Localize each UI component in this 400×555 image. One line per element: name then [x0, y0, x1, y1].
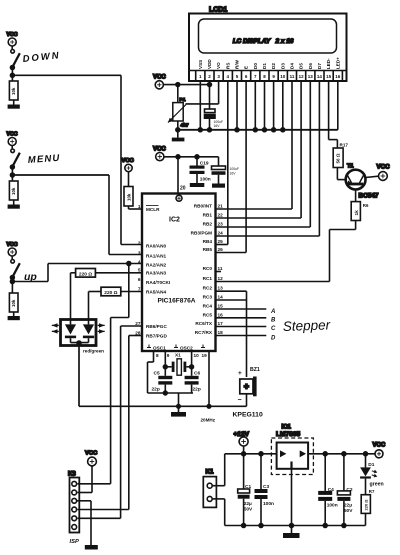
svg-text:T1: T1 — [347, 164, 354, 170]
wire: VCC rail to LCD VDD — [163, 84, 209, 86]
wire: LCD pin10 D3 grounded — [282, 81, 284, 130]
svg-text:red/green: red/green — [83, 349, 104, 354]
connector K3 ISP — [68, 472, 79, 546]
capacitor 100uF/16V on VDD — [205, 109, 224, 128]
svg-text:B: B — [271, 318, 276, 324]
svg-text:25: 25 — [218, 239, 224, 244]
node: C1 top / bottom — [242, 524, 246, 528]
node: VDD to VCC rail — [208, 83, 212, 87]
IC2 left pin numbers — [135, 204, 141, 336]
svg-text:D1: D1 — [368, 462, 374, 468]
wire: +12V drop to input rail — [243, 446, 245, 454]
wire: LCD pin5 R/W down to ground bus — [236, 81, 238, 130]
node: pin19 on rail — [207, 405, 211, 409]
svg-text:C19: C19 — [200, 161, 209, 167]
capacitor C1 22u/50V — [238, 454, 253, 526]
svg-text:16: 16 — [335, 74, 341, 79]
wire: RC6 stepper C — [216, 326, 267, 328]
wire: LCD pin16 down to ground bus end — [337, 81, 339, 130]
svg-text:RA1/AN1: RA1/AN1 — [146, 254, 166, 259]
svg-text:RC3: RC3 — [203, 295, 213, 300]
svg-text:26: 26 — [218, 247, 224, 252]
svg-text:C: C — [271, 326, 276, 332]
node: VSS on ground bus — [198, 128, 202, 132]
svg-text:RC6/TX: RC6/TX — [195, 321, 213, 326]
svg-text:10k: 10k — [11, 87, 16, 95]
svg-text:D2: D2 — [271, 63, 276, 69]
svg-text:D6: D6 — [308, 63, 313, 69]
ground (UP resistor) — [8, 312, 20, 320]
LCD module LCD1 — [189, 7, 347, 82]
wire: LED1 up to 220ohm — [71, 273, 76, 320]
svg-text:15: 15 — [218, 304, 224, 309]
wire: LED cathodes to ground rail — [79, 343, 247, 406]
wire: LCD pin8 D1 grounded — [264, 81, 266, 130]
wire: LCD pin15 down jog to R17 — [329, 81, 338, 148]
wire: VCC to K3 pin2 — [78, 466, 93, 493]
connector K1 — [203, 469, 216, 508]
resistor 220ohm (LED1) — [76, 269, 96, 278]
wire: RC3 stub joins buzzer net — [216, 299, 247, 301]
LED D1 green — [360, 454, 384, 488]
wire: LCD pin12 D5 down to RB1 — [216, 81, 302, 218]
resistor 220ohm (LED2) — [101, 287, 121, 296]
svg-text:RB3/PGM: RB3/PGM — [191, 231, 212, 236]
IC U2: PIC16F876A box — [142, 194, 216, 352]
svg-text:19: 19 — [202, 353, 208, 358]
capacitor C5 22p — [152, 371, 173, 394]
svg-text:D3: D3 — [280, 63, 285, 69]
voltage regulator IC1 LM7805 — [271, 425, 313, 475]
wire: IC2 pin8 VSS to ground — [148, 351, 194, 393]
svg-text:C6: C6 — [194, 371, 200, 377]
ground (main rail) — [171, 406, 186, 416]
svg-text:VCC: VCC — [7, 32, 18, 38]
node: cap minus on ground bus — [208, 128, 212, 132]
svg-text:10: 10 — [280, 74, 286, 79]
wire: LCD pin3 VO to pot wiper — [186, 81, 219, 104]
wire: OSC2 pin10 column — [191, 351, 193, 376]
svg-text:RA5/AN4: RA5/AN4 — [146, 290, 166, 295]
crystal X1 20MHz — [165, 359, 191, 375]
LCD pin function labels (vertical) — [198, 57, 341, 69]
wire: LCD pin7 D0 grounded — [254, 81, 256, 130]
LED module D red/green — [52, 320, 105, 354]
switch S2 MENU with VCC — [7, 132, 20, 182]
wire: RC2 to buzzer plus — [216, 291, 247, 377]
resistor R7 220ohm — [361, 479, 375, 526]
svg-text:22p: 22p — [193, 387, 201, 393]
svg-text:C5: C5 — [154, 371, 160, 377]
node: D1 tap on output rail — [364, 452, 368, 456]
svg-text:220 Ω: 220 Ω — [79, 272, 92, 278]
wire: RC7 stepper D — [216, 335, 267, 337]
wire: LCD pin14 D7 down to RB3 — [216, 81, 320, 236]
wire: UP switch jog to RA2 — [12, 264, 142, 282]
svg-text:RC2: RC2 — [203, 286, 213, 291]
svg-text:20MHz: 20MHz — [201, 418, 216, 423]
svg-text:BC547: BC547 — [359, 193, 379, 200]
node: UP junction — [10, 280, 14, 284]
ground (K3) — [85, 545, 98, 550]
wire: R17 to T1 base — [337, 168, 345, 180]
wire: T1 collector to VCC — [366, 176, 379, 177]
wire: oscillator gnd link down to rail — [178, 393, 180, 406]
node: +12V on rail — [242, 452, 246, 456]
svg-text:RC0: RC0 — [203, 266, 213, 271]
wire: RC4 stepper A — [216, 308, 267, 310]
svg-text:VCC: VCC — [373, 443, 386, 449]
svg-text:RB4: RB4 — [203, 239, 213, 244]
node: P1 bottom on ground bus — [176, 128, 180, 132]
svg-text:220 Ω: 220 Ω — [364, 499, 369, 511]
svg-text:D7: D7 — [317, 63, 322, 69]
svg-text:10k: 10k — [127, 193, 132, 201]
svg-text:8: 8 — [156, 353, 159, 358]
wire: RC5 stepper B — [216, 317, 267, 319]
LCD pin number row (pins 1-16) — [189, 71, 347, 82]
resistor 10k (DOWN pull-down) — [9, 81, 18, 100]
resistor 10k (UP pull-down) — [9, 293, 18, 312]
potentiometer P1 4k7 — [168, 97, 189, 129]
svg-text:22: 22 — [218, 213, 224, 218]
transistor T1 BC547 — [346, 164, 379, 200]
svg-text:D0: D0 — [253, 63, 258, 69]
wire: output rail to VCC — [308, 453, 374, 455]
svg-text:VO: VO — [216, 62, 221, 69]
wire: RC0 stub — [216, 271, 222, 273]
ground (below P1) — [172, 121, 185, 141]
svg-text:RB7/PGD: RB7/PGD — [146, 334, 167, 339]
wire: 220ohm to RA5 — [121, 291, 142, 293]
svg-text:RA4/T0CKI: RA4/T0CKI — [146, 280, 170, 285]
svg-text:LED+: LED+ — [335, 57, 340, 69]
svg-text:13: 13 — [308, 74, 314, 79]
wire: K1 pin2 to ground rail — [212, 499, 365, 526]
svg-text:100n: 100n — [263, 501, 274, 507]
svg-text:RA3/AN3: RA3/AN3 — [146, 271, 166, 276]
svg-text:18: 18 — [218, 330, 224, 335]
node: P1 tap on VCC rail — [176, 83, 180, 87]
svg-text:+: + — [238, 370, 242, 377]
svg-text:MCLR: MCLR — [146, 207, 160, 212]
svg-text:24: 24 — [218, 231, 224, 236]
svg-text:16V: 16V — [230, 172, 237, 176]
node: gnd rail junction — [177, 405, 181, 409]
svg-text:100n: 100n — [327, 503, 338, 509]
svg-text:100n: 100n — [200, 176, 211, 182]
IC2 OSC pin marks — [147, 345, 205, 348]
node: C19 tap — [195, 155, 199, 159]
svg-text:21: 21 — [218, 204, 224, 209]
svg-text:220 Ω: 220 Ω — [104, 290, 117, 296]
svg-text:ISP: ISP — [70, 539, 79, 545]
wire: LCD pin9 D2 grounded — [273, 81, 275, 130]
svg-text:LED-: LED- — [326, 58, 331, 69]
resistor 10k (MCLR pull-up) — [124, 187, 133, 207]
wire: drop to IC2 pin 20 — [177, 157, 179, 194]
wire: regulator ground leg — [291, 469, 293, 533]
wire: K1 pin1 stub — [212, 485, 225, 487]
wire: LCD pin1 VSS down to ground bus — [199, 81, 201, 130]
ground (power section) — [283, 533, 300, 538]
svg-text:OSC2: OSC2 — [180, 346, 193, 351]
node: DOWN junction — [10, 73, 14, 77]
svg-text:11: 11 — [218, 266, 223, 271]
wire: LCD pin6 E down to RB5 — [216, 81, 247, 253]
svg-text:E: E — [244, 66, 249, 69]
svg-text:VCC: VCC — [153, 147, 166, 153]
buzzer BZ1 KPEG110 — [233, 367, 263, 419]
wire: input rail K1 to regulator — [225, 454, 277, 486]
capacitor C6 22p — [185, 371, 201, 394]
svg-text:PIC16F876A: PIC16F876A — [157, 298, 195, 305]
svg-text:15: 15 — [326, 74, 332, 79]
svg-text:R6: R6 — [363, 203, 369, 208]
svg-text:LC DISPLAY 2 x 16: LC DISPLAY 2 x 16 — [233, 38, 294, 45]
svg-text:RC4: RC4 — [203, 304, 213, 309]
svg-text:RA2/AN2: RA2/AN2 — [146, 263, 166, 268]
svg-text:D: D — [271, 336, 276, 342]
wire: 220ohm to RA3 — [95, 272, 142, 274]
IC2 right pin numbers — [218, 204, 224, 336]
capacitor C19 100n — [190, 157, 211, 183]
wire: LED2 up to 220ohm — [89, 292, 102, 320]
ground (DOWN resistor) — [8, 100, 20, 109]
svg-text:RB2: RB2 — [203, 222, 213, 227]
power symbol VCC (K3) — [85, 451, 98, 466]
svg-text:56 Ω: 56 Ω — [336, 153, 341, 163]
svg-text:10k: 10k — [11, 187, 16, 195]
svg-text:IC2: IC2 — [169, 217, 180, 224]
wire: IC2 pin19 VSS to rail — [208, 351, 210, 406]
svg-text:50V: 50V — [244, 507, 253, 513]
power symbol VCC (at T1) — [377, 164, 391, 181]
wire: RB6/PGC to K3 pin5 — [78, 326, 143, 518]
svg-text:R/W: R/W — [235, 59, 240, 69]
svg-text:50V: 50V — [344, 508, 353, 514]
capacitor C3 100n — [255, 452, 275, 528]
svg-text:14: 14 — [317, 74, 323, 79]
capacitor C2 22u/50V — [337, 452, 353, 528]
IC2 left pin labels — [146, 205, 193, 350]
svg-text:VDD: VDD — [207, 59, 212, 69]
node: R/W grounded — [235, 128, 239, 132]
svg-text:MENU: MENU — [27, 153, 60, 166]
svg-text:22µ: 22µ — [244, 501, 252, 507]
svg-text:OSC1: OSC1 — [153, 346, 166, 351]
wire: VCC rail for IC2/C19 — [164, 156, 219, 158]
wire: LCD pin4 RS down to RB4 — [216, 81, 228, 245]
svg-text:RC5: RC5 — [203, 312, 213, 317]
svg-text:RS: RS — [225, 63, 230, 69]
svg-text:R7: R7 — [369, 489, 375, 494]
svg-text:14: 14 — [218, 295, 224, 300]
svg-text:16V: 16V — [214, 124, 221, 128]
capacitor 100uF/16V (IC supply) — [212, 157, 240, 184]
wire: resistor to MCLR pin1 — [129, 206, 143, 209]
svg-text:17: 17 — [218, 321, 224, 326]
svg-text:11: 11 — [290, 74, 295, 79]
svg-text:LCD1: LCD1 — [209, 7, 227, 14]
resistor R6 1k — [351, 202, 369, 221]
svg-text:23: 23 — [218, 222, 224, 227]
svg-text:A: A — [270, 309, 275, 315]
node: OSC1 crystal tap — [163, 365, 167, 369]
wire: OSC1 pin9 column — [164, 351, 166, 376]
ground (below 100uF) — [212, 184, 225, 188]
wire: K3 pin3 to ground — [77, 501, 91, 545]
wire: RA2 wire down to K3 pin1 — [78, 264, 129, 484]
svg-text:VCC: VCC — [7, 242, 18, 248]
svg-text:9: 9 — [167, 353, 170, 358]
svg-text:RB0/INT: RB0/INT — [194, 204, 212, 209]
ground bus under LCD — [178, 129, 338, 131]
node: K3 pin1 net on RA2 wire — [127, 262, 131, 266]
IC2 right pin labels — [191, 204, 213, 336]
node: C5 on gnd link — [163, 391, 167, 395]
resistor R17 56ohm — [333, 142, 348, 167]
node: regulator gnd on rail — [290, 524, 294, 528]
svg-text:4k7: 4k7 — [181, 123, 189, 129]
node: OSC2 crystal tap — [190, 365, 194, 369]
svg-text:LM7805: LM7805 — [276, 431, 301, 438]
svg-text:10: 10 — [194, 353, 200, 358]
power symbol VCC (IC2 supply) — [153, 147, 166, 161]
svg-text:RC1: RC1 — [203, 276, 213, 281]
svg-text:K1: K1 — [206, 469, 214, 476]
resistor 10k (MENU pull-down) — [9, 181, 18, 200]
ground (MENU resistor) — [8, 200, 20, 209]
svg-text:6: 6 — [138, 277, 141, 282]
wire: T1 to R6 — [355, 190, 357, 202]
capacitor C4 100n — [318, 452, 338, 528]
svg-text:5: 5 — [138, 268, 141, 273]
svg-text:20: 20 — [180, 186, 186, 192]
svg-text:VCC: VCC — [7, 132, 18, 138]
power symbol +12V — [234, 431, 250, 446]
svg-text:−: − — [238, 397, 242, 404]
svg-text:D5: D5 — [299, 63, 304, 69]
wire: RB7/PGD to K3 pin4 — [78, 336, 143, 510]
svg-text:VCC: VCC — [85, 451, 98, 457]
svg-text:VCC: VCC — [122, 158, 135, 164]
svg-text:RB6/PGC: RB6/PGC — [146, 324, 167, 329]
switch S3 UP with VCC — [7, 242, 20, 293]
wire: LCD pin13 D6 down to RB2 — [216, 81, 311, 227]
wire: DOWN switch to RA0 — [12, 75, 142, 244]
svg-text:100uF: 100uF — [230, 167, 240, 171]
svg-text:Stepper: Stepper — [283, 317, 331, 334]
svg-text:KPEG110: KPEG110 — [233, 412, 263, 419]
svg-text:12: 12 — [218, 276, 224, 281]
power symbol VCC (MCLR pull-up) — [122, 158, 135, 172]
power symbol VCC (regulator output) — [373, 443, 386, 458]
svg-text:RA0/AN0: RA0/AN0 — [146, 244, 166, 249]
svg-text:X1: X1 — [175, 353, 181, 358]
power symbol VCC (top, LCD supply) — [153, 75, 166, 89]
svg-text:16: 16 — [218, 312, 224, 317]
wire: MENU switch to RA1 — [12, 175, 142, 255]
svg-text:12: 12 — [299, 74, 305, 79]
svg-text:D1: D1 — [262, 63, 267, 69]
svg-text:R17: R17 — [340, 142, 349, 147]
wire: R6 down and left to RC1 — [216, 221, 356, 282]
svg-text:D4: D4 — [290, 63, 295, 69]
wire: LCD pin11 D4 down to RB0 — [216, 81, 293, 209]
svg-text:22µ: 22µ — [344, 503, 352, 509]
svg-text:BZ1: BZ1 — [250, 367, 260, 373]
wire: VCC rail down to P1 — [177, 85, 179, 103]
switch S1 DOWN with VCC — [7, 32, 20, 81]
svg-text:RB1: RB1 — [203, 213, 213, 218]
node: pin20 drop — [176, 155, 180, 159]
node: MENU junction — [10, 173, 14, 177]
svg-text:1k: 1k — [354, 210, 360, 216]
svg-text:RC7/RX: RC7/RX — [195, 330, 213, 335]
IC2 bottom pin numbers 8 9 10 19 and X1 — [156, 353, 207, 359]
wire: LCD pin2 VDD column — [209, 81, 211, 130]
svg-text:VSS: VSS — [198, 60, 203, 69]
svg-text:VCC: VCC — [377, 164, 391, 171]
svg-text:IC1: IC1 — [282, 425, 292, 431]
svg-text:22p: 22p — [152, 387, 160, 393]
svg-text:10k: 10k — [11, 299, 16, 307]
svg-text:RB5: RB5 — [203, 247, 213, 252]
ground (below C19) — [190, 183, 205, 187]
svg-text:VCC: VCC — [153, 75, 166, 81]
svg-text:green: green — [370, 482, 384, 488]
wire: VCC to 10k MCLR resistor — [128, 172, 130, 187]
svg-text:13: 13 — [218, 286, 224, 291]
